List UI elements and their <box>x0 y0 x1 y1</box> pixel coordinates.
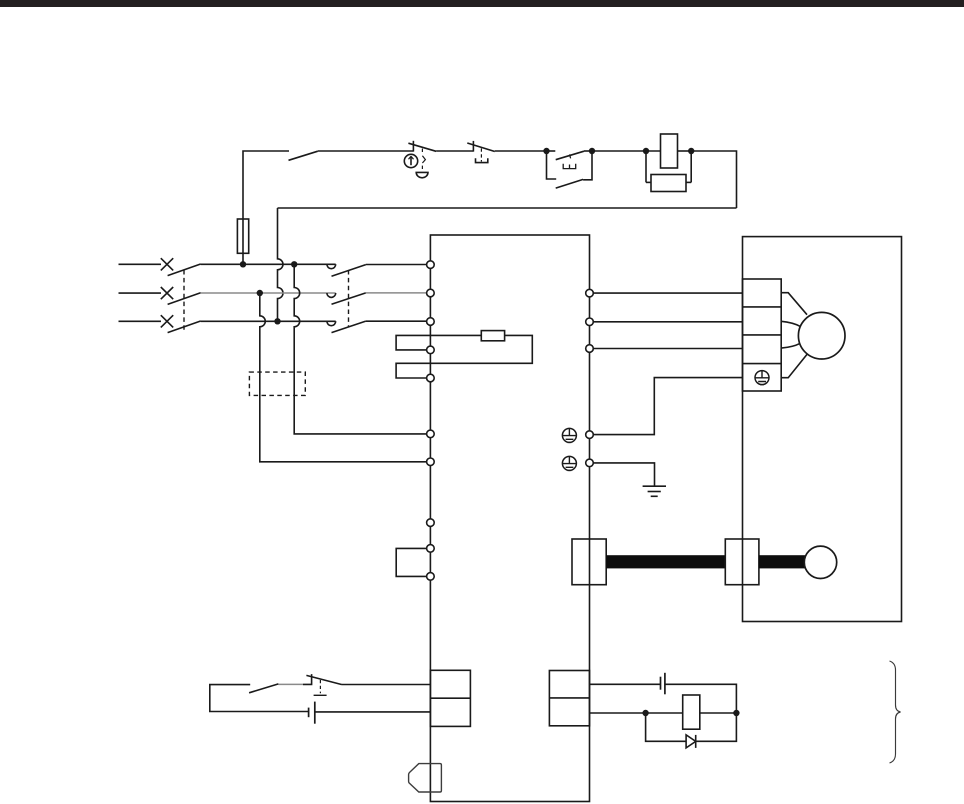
pressure actuator: dashed link with spring and diaphragm cup <box>416 149 428 178</box>
wire: battery to drive terminal <box>315 711 431 713</box>
contactor M pole 1 <box>327 264 427 276</box>
shaft bar left segment <box>606 555 725 568</box>
contactor interlock dashed line <box>348 270 350 327</box>
wire: drive to motor phase 1 <box>593 292 742 294</box>
fuse F1 <box>237 219 248 253</box>
wire: remote loop left side <box>210 685 308 712</box>
phase L1 wire to contactor <box>201 263 336 265</box>
door switch S4 (two-pole with mechanical link) <box>547 151 593 188</box>
wire: PE terminal to motor ground <box>593 378 742 435</box>
junction dot relay right <box>733 710 739 716</box>
wire: control bottom rail <box>278 207 737 209</box>
phase L2 input stub <box>119 292 162 294</box>
shaft coupling left <box>572 539 606 585</box>
motor lead 3 <box>781 343 800 348</box>
box edge re-draw through couplings <box>589 539 591 585</box>
solenoid coil SOL rectangle <box>661 134 678 168</box>
protective earth symbol upper <box>562 428 576 442</box>
breaker CB pole 2: X mark <box>161 287 173 299</box>
wire under coil to right node <box>678 150 692 152</box>
remote actuator dashed link and bar <box>314 680 327 695</box>
terminal block lower right <box>549 671 589 726</box>
pressure switch S2 <box>408 141 473 152</box>
junction dots coil branch <box>643 148 649 154</box>
capacitor C plates <box>661 673 665 695</box>
remote switch blade 2 <box>306 675 341 684</box>
breaker CB pole 2 blade <box>168 293 201 305</box>
motor circle M <box>798 312 845 359</box>
wire: gray segment after blade <box>278 683 303 685</box>
battery negative plate <box>308 708 310 718</box>
battery positive plate <box>314 702 316 724</box>
breaker CB pole 3 blade <box>168 321 201 333</box>
annotation brace <box>890 661 901 763</box>
shaft coupling right <box>725 539 759 585</box>
resistor R rectangle <box>651 175 686 192</box>
remote switch blade <box>249 684 278 693</box>
shaft bar right segment <box>759 555 807 568</box>
switch S1 blade <box>289 151 318 160</box>
resistor branch below coil <box>646 151 691 182</box>
diode D <box>686 735 696 748</box>
wire: S1 to pressure switch <box>318 150 414 152</box>
wire: terminal to relay node <box>590 712 683 714</box>
wire: control rail right side down <box>691 151 736 208</box>
wire: capacitor to right corner down <box>665 684 737 713</box>
contactor M pole 3 <box>327 321 427 333</box>
breaker interlock dashed line <box>183 270 185 331</box>
wire: control rail left drop to fuse <box>243 151 289 264</box>
phase L3 wire to contactor <box>201 320 336 322</box>
resistor (thermostat heater) rectangle <box>481 331 504 341</box>
motor enclosure box <box>743 237 902 622</box>
motor lead 1 <box>781 293 807 315</box>
wire: PE terminal to earth <box>593 463 654 486</box>
protective earth symbol lower <box>562 456 576 470</box>
wire: phase1 tap down with hops to terminal <box>294 264 427 434</box>
phase L3 input stub <box>119 320 162 322</box>
jumper loop terminals 9-10 <box>396 548 426 576</box>
relay coil CR rectangle <box>683 695 700 729</box>
junction dot phase1 tap <box>291 261 297 267</box>
junction dot phase3 control <box>274 318 280 324</box>
interlock switch S3 <box>467 141 546 152</box>
pressure actuator: circle with up arrow <box>404 154 417 167</box>
contactor M pole 2 <box>327 293 427 304</box>
input terminal circles on left edge <box>427 261 435 269</box>
phase L1 input stub <box>119 263 162 265</box>
wire: S4 to solenoid branch <box>592 150 661 152</box>
junction dots S4 <box>543 148 549 154</box>
wire: remote to drive terminal <box>342 684 431 686</box>
motor lead 4 <box>781 354 808 378</box>
wire: terminal to capacitor <box>590 683 661 685</box>
wire: drive to motor phase 2 <box>593 321 742 323</box>
motor terminal block <box>743 279 782 391</box>
wire: phase2 tap down with hop to terminal <box>260 293 427 462</box>
wire: drive to motor phase 3 <box>593 348 742 350</box>
junction dot phase2 tap <box>257 290 263 296</box>
remote switch fixed contact riser <box>303 674 312 684</box>
output terminal circles on right edge <box>586 289 594 297</box>
S3 actuator: dashed link and U bracket <box>476 148 488 162</box>
breaker CB pole 1 blade <box>168 264 201 276</box>
handwheel circle <box>804 546 836 578</box>
earth ground symbol <box>643 486 666 496</box>
motor lead 2 <box>781 321 800 326</box>
breaker CB pole 3: X mark <box>161 315 173 327</box>
breaker CB pole 1: X mark <box>161 258 173 270</box>
terminal block lower left <box>430 670 470 726</box>
junction dot fuse tap <box>240 261 246 267</box>
motor PE terminal symbol <box>755 371 769 385</box>
transformer dashed box <box>249 372 305 395</box>
header bar <box>0 0 964 7</box>
diode loop wires <box>646 713 737 741</box>
power source enclosure box <box>430 235 589 802</box>
plug connector at bottom <box>409 764 442 792</box>
thermostat loop with resistor <box>396 335 532 378</box>
wire: relay to right node <box>700 712 737 714</box>
junction dot relay left <box>642 710 648 716</box>
wire: control drop to phase 3 with hops <box>278 208 284 321</box>
phase L2 wire to contactor (gray) <box>201 292 336 294</box>
